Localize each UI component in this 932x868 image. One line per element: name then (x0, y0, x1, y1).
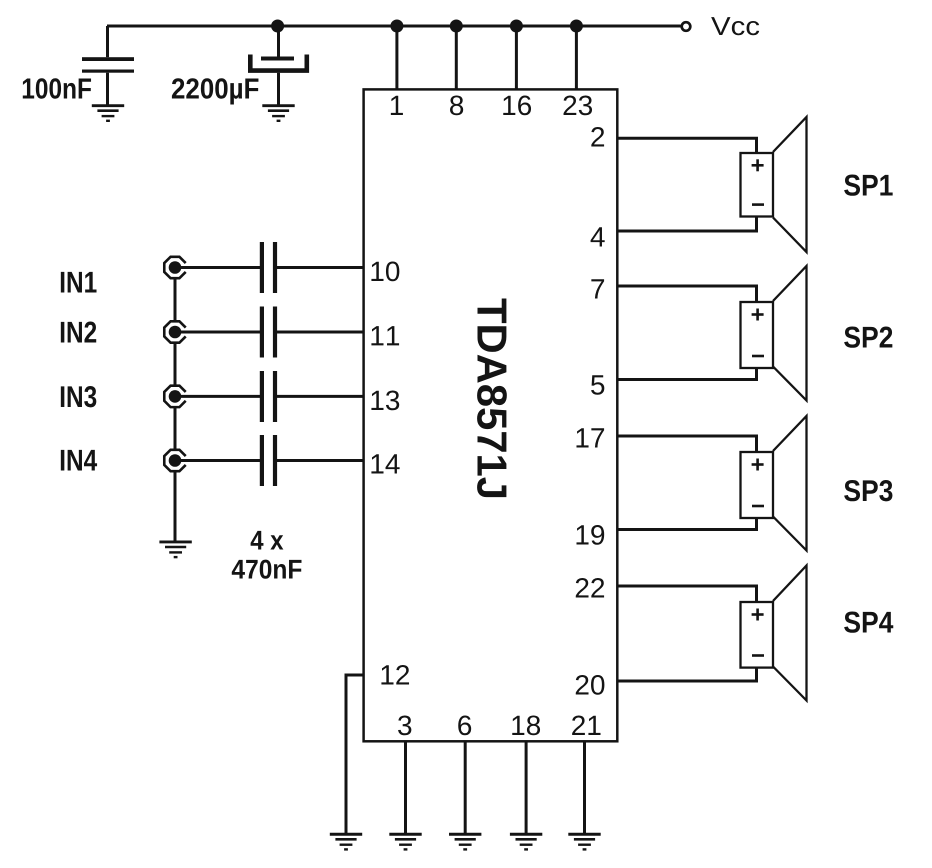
wire pin16 drop (515, 26, 518, 91)
pin 20 number (576, 675, 605, 695)
connector IN4 (164, 450, 185, 471)
label SP1 (844, 175, 893, 196)
terminal Vcc open circle (682, 22, 691, 31)
wire pin22 (617, 586, 756, 603)
ground pin12 (330, 834, 362, 849)
pin 10 number (371, 261, 399, 281)
wire pin23 drop (575, 26, 578, 91)
wire pin12 (346, 675, 365, 834)
label Vcc (711, 17, 759, 35)
wire IN3 to C5 (175, 395, 260, 398)
speaker SP3 (741, 416, 807, 551)
ground for C2 (262, 106, 294, 121)
ground pin18 (510, 834, 542, 849)
wire pin19 (617, 518, 756, 530)
pin 3 number (398, 715, 411, 735)
junction dot at C2 (271, 20, 284, 33)
wire pin3 (404, 743, 407, 835)
wire input bus segment 2 (174, 343, 177, 385)
junction dot pin23 (570, 20, 583, 33)
wire C3 to pin10 (277, 266, 365, 269)
wire input bus segment 3 (174, 407, 177, 449)
pin 19 number (576, 525, 604, 545)
pin 16 number (503, 95, 531, 115)
wire pin1 drop (395, 26, 398, 91)
capacitor C3 470nF (260, 242, 277, 293)
connector IN2 (164, 321, 185, 342)
wire C6 to pin14 (277, 459, 365, 462)
pin 13 number (371, 390, 399, 410)
pin 17 number (576, 428, 604, 447)
label IN4 (61, 450, 97, 471)
wire pin5 (617, 368, 756, 380)
IC U1 TDA8571J body (364, 89, 618, 741)
wire pin2 (617, 138, 756, 153)
label 100nF (23, 78, 91, 99)
wire IN2 to C4 (175, 331, 260, 334)
connector IN3 (164, 386, 185, 407)
pin 12 number (381, 665, 409, 685)
wire pin20 (617, 667, 756, 681)
label 4 x (251, 531, 284, 550)
label 2200uF (172, 78, 259, 104)
label IN3 (61, 386, 96, 407)
wire pin17 (617, 436, 756, 453)
wire C5 to pin13 (277, 395, 365, 398)
capacitor C6 470nF (260, 435, 277, 486)
pin 14 number (371, 454, 399, 473)
capacitor C5 470nF (260, 371, 277, 422)
pin 8 number (450, 95, 463, 115)
pin 5 number (591, 375, 604, 395)
ground pin21 (568, 834, 600, 849)
pin 7 number (591, 279, 604, 298)
wire pin18 (525, 743, 528, 835)
pin 6 number (458, 715, 471, 735)
speaker SP2 (741, 266, 807, 401)
junction dot pin16 (510, 20, 523, 33)
pin 22 number (576, 578, 604, 598)
capacitor C4 470nF (260, 307, 277, 358)
speaker SP1 (741, 117, 807, 252)
label TDA8571J (477, 298, 507, 497)
pin 11 number (371, 326, 399, 345)
label IN2 (61, 322, 96, 343)
wire pin21 (583, 743, 586, 835)
wire pin4 (617, 216, 756, 231)
junction dot pin1 (390, 20, 403, 33)
wire pin7 (617, 286, 756, 303)
pin 21 number (572, 715, 600, 735)
wire input bus segment 1 (174, 279, 177, 322)
ground pin6 (449, 834, 481, 849)
capacitor C2 2200uF polarized (250, 26, 306, 105)
wire pin8 drop (455, 26, 458, 91)
wire pin6 (464, 743, 467, 835)
wire input bus segment 4 (174, 472, 177, 542)
connector IN1 (164, 257, 185, 278)
label SP4 (844, 612, 893, 633)
label IN1 (61, 272, 97, 293)
pin 4 number (591, 227, 605, 246)
ground for C1 (92, 106, 124, 121)
wire IN4 to C6 (175, 459, 260, 462)
wire Vcc rail (107, 25, 681, 28)
junction dot pin8 (450, 20, 463, 33)
ground for inputs (159, 542, 191, 557)
label SP2 (844, 327, 892, 348)
pin 2 number (591, 127, 604, 147)
label SP3 (844, 480, 892, 501)
capacitor C1 100nF (82, 26, 134, 105)
wire C4 to pin11 (277, 331, 365, 334)
ground pin3 (389, 834, 421, 849)
label 470nF (232, 560, 302, 579)
pin 23 number (564, 95, 593, 115)
pin 18 number (512, 715, 540, 735)
wire IN1 to C3 (175, 266, 260, 269)
speaker SP4 (741, 566, 807, 701)
pin 1 number (391, 96, 403, 115)
